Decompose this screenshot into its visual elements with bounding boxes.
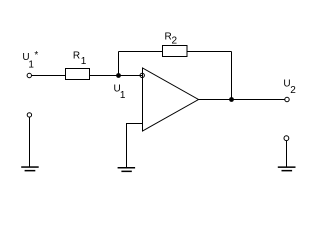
svg-text:2: 2: [172, 35, 178, 46]
svg-text:*: *: [34, 50, 38, 61]
svg-text:2: 2: [290, 85, 296, 96]
svg-text:1: 1: [81, 56, 87, 67]
svg-text:1: 1: [120, 90, 126, 101]
svg-text:R: R: [73, 50, 80, 61]
